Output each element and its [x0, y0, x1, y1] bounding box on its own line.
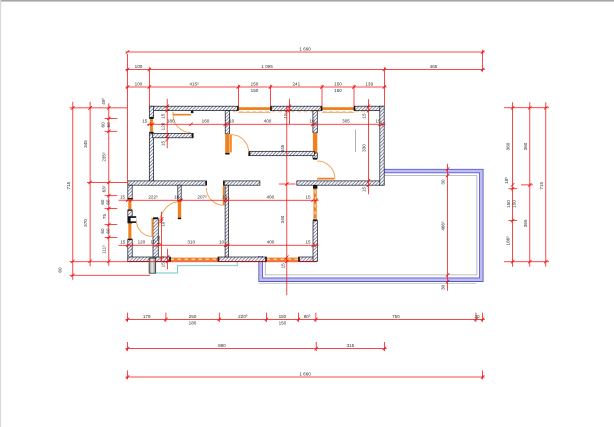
svg-text:10: 10 — [219, 240, 225, 245]
svg-text:75: 75 — [102, 214, 107, 220]
svg-text:15: 15 — [120, 195, 126, 200]
svg-text:355: 355 — [523, 219, 528, 227]
svg-text:150: 150 — [251, 88, 259, 93]
svg-text:1.80: 1.80 — [156, 235, 161, 244]
svg-text:15: 15 — [142, 119, 148, 124]
svg-text:100: 100 — [135, 64, 143, 69]
svg-text:15: 15 — [305, 195, 311, 200]
svg-text:150: 150 — [279, 314, 287, 319]
svg-text:160: 160 — [202, 119, 210, 124]
svg-text:330: 330 — [362, 144, 367, 152]
svg-text:1 660: 1 660 — [299, 371, 311, 376]
svg-text:400: 400 — [264, 119, 272, 124]
svg-text:179: 179 — [143, 314, 151, 319]
svg-text:10: 10 — [309, 119, 315, 124]
svg-text:60: 60 — [100, 228, 105, 234]
svg-text:180: 180 — [167, 119, 175, 124]
svg-text:180: 180 — [189, 320, 197, 325]
svg-text:139: 139 — [365, 81, 373, 86]
svg-text:305: 305 — [342, 119, 350, 124]
svg-text:345: 345 — [83, 140, 88, 148]
svg-text:100: 100 — [135, 81, 143, 86]
svg-text:10: 10 — [174, 195, 180, 200]
svg-text:150: 150 — [512, 200, 517, 208]
svg-text:60: 60 — [106, 122, 111, 128]
svg-text:370: 370 — [83, 219, 88, 227]
svg-text:715: 715 — [539, 182, 544, 190]
svg-text:340: 340 — [280, 215, 285, 223]
svg-text:1 660: 1 660 — [299, 46, 311, 51]
svg-text:150: 150 — [334, 81, 342, 86]
svg-text:360: 360 — [506, 142, 511, 150]
svg-text:10: 10 — [160, 221, 165, 227]
svg-text:150: 150 — [251, 81, 259, 86]
svg-text:60: 60 — [100, 199, 105, 205]
svg-text:60: 60 — [105, 199, 110, 205]
svg-text:465: 465 — [430, 64, 438, 69]
svg-text:60: 60 — [105, 228, 110, 234]
svg-text:30: 30 — [441, 179, 446, 185]
svg-text:360: 360 — [523, 142, 528, 150]
svg-text:15: 15 — [362, 187, 367, 193]
svg-text:400: 400 — [267, 240, 275, 245]
svg-text:10: 10 — [222, 195, 228, 200]
svg-text:15: 15 — [160, 113, 165, 119]
svg-text:315: 315 — [346, 343, 354, 348]
svg-text:15: 15 — [120, 240, 126, 245]
svg-text:15: 15 — [160, 262, 165, 268]
svg-text:150: 150 — [279, 320, 287, 325]
svg-text:60: 60 — [58, 267, 63, 273]
svg-text:15: 15 — [362, 113, 367, 119]
svg-text:15: 15 — [305, 240, 311, 245]
svg-text:750: 750 — [392, 314, 400, 319]
svg-text:310: 310 — [187, 240, 195, 245]
svg-text:15: 15 — [280, 263, 285, 269]
svg-text:15: 15 — [375, 119, 381, 124]
svg-text:400: 400 — [266, 195, 274, 200]
svg-text:241: 241 — [292, 81, 300, 86]
svg-text:150: 150 — [334, 88, 342, 93]
svg-text:250: 250 — [189, 314, 197, 319]
svg-text:30: 30 — [441, 284, 446, 290]
svg-text:10: 10 — [229, 119, 235, 124]
svg-text:880: 880 — [218, 343, 226, 348]
svg-text:345: 345 — [280, 144, 285, 152]
svg-text:30: 30 — [474, 314, 480, 319]
svg-text:60: 60 — [101, 122, 106, 128]
svg-text:150: 150 — [506, 200, 511, 208]
svg-text:120: 120 — [160, 122, 165, 130]
svg-text:1 095: 1 095 — [261, 64, 273, 69]
svg-text:120: 120 — [138, 240, 146, 245]
svg-text:715: 715 — [66, 181, 71, 189]
svg-text:15: 15 — [160, 141, 165, 147]
